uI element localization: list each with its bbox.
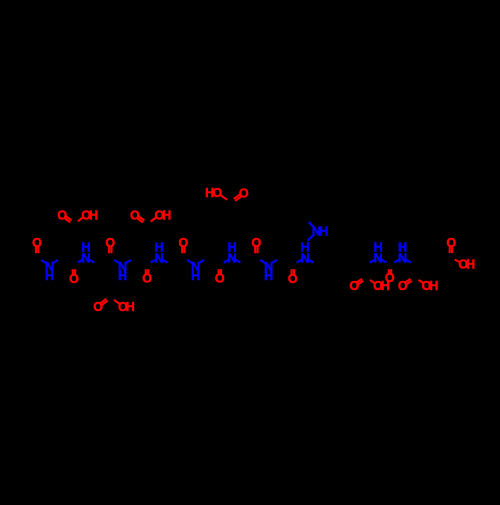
svg-text:H: H bbox=[319, 225, 328, 239]
svg-text:H: H bbox=[398, 241, 407, 255]
svg-text:O: O bbox=[93, 300, 103, 314]
carbonyl O3 bbox=[105, 236, 115, 253]
amide N7 bbox=[260, 260, 277, 283]
secondary amine NH bbox=[308, 222, 329, 241]
urea carbonyl O bbox=[385, 269, 395, 285]
svg-text:O: O bbox=[239, 187, 249, 201]
alpha COOH of residue 9 bbox=[349, 279, 390, 293]
svg-text:O: O bbox=[252, 236, 262, 250]
amide N6 bbox=[224, 241, 241, 266]
carbonyl O2 bbox=[69, 269, 79, 286]
carbonyl O4 bbox=[142, 269, 152, 285]
svg-text:H: H bbox=[191, 269, 200, 283]
svg-text:H: H bbox=[45, 269, 54, 283]
svg-text:O: O bbox=[142, 271, 152, 285]
svg-text:H: H bbox=[81, 241, 90, 255]
svg-text:H: H bbox=[374, 241, 383, 255]
urea N9 bbox=[370, 241, 387, 266]
alpha COOH of Glu10 bbox=[398, 279, 439, 293]
carbonyl O6 bbox=[215, 269, 225, 285]
amide N1 bbox=[41, 260, 58, 283]
svg-text:O: O bbox=[446, 236, 456, 250]
amide N5 bbox=[187, 260, 204, 283]
carbonyl O8 bbox=[288, 269, 298, 286]
svg-text:O: O bbox=[105, 236, 115, 250]
svg-text:H: H bbox=[126, 300, 135, 314]
svg-text:O: O bbox=[69, 272, 79, 286]
urea N10 bbox=[394, 241, 411, 266]
svg-text:O: O bbox=[385, 271, 395, 285]
Asp3 side-chain COOH bbox=[130, 208, 171, 222]
svg-text:O: O bbox=[398, 279, 408, 293]
carbonyl O5 bbox=[179, 236, 189, 253]
amide N8 bbox=[297, 241, 314, 266]
acetyl carbonyl O1 bbox=[32, 236, 42, 253]
Glu side-chain COOH bbox=[205, 186, 249, 201]
svg-text:H: H bbox=[155, 241, 164, 255]
C-terminal COOH bbox=[446, 236, 475, 271]
svg-text:H: H bbox=[205, 186, 214, 200]
svg-text:O: O bbox=[130, 208, 140, 222]
svg-text:H: H bbox=[89, 208, 98, 222]
amide N2 bbox=[78, 241, 95, 266]
svg-text:H: H bbox=[264, 269, 273, 283]
svg-text:H: H bbox=[162, 208, 171, 222]
svg-text:H: H bbox=[118, 269, 127, 283]
amide N3 bbox=[114, 260, 131, 283]
svg-text:O: O bbox=[32, 236, 42, 250]
svg-text:O: O bbox=[288, 272, 298, 286]
svg-text:H: H bbox=[429, 279, 438, 293]
Asp1 side-chain COOH bbox=[57, 208, 98, 222]
svg-text:H: H bbox=[301, 241, 310, 255]
svg-text:O: O bbox=[179, 236, 189, 250]
svg-text:H: H bbox=[228, 241, 237, 255]
amide N4 bbox=[151, 241, 168, 266]
svg-text:O: O bbox=[215, 271, 225, 285]
svg-text:H: H bbox=[466, 258, 475, 272]
svg-text:O: O bbox=[57, 208, 67, 222]
svg-text:O: O bbox=[349, 279, 359, 293]
carbonyl O7 bbox=[252, 236, 262, 253]
Asp2 side-chain COOH bbox=[93, 299, 135, 314]
